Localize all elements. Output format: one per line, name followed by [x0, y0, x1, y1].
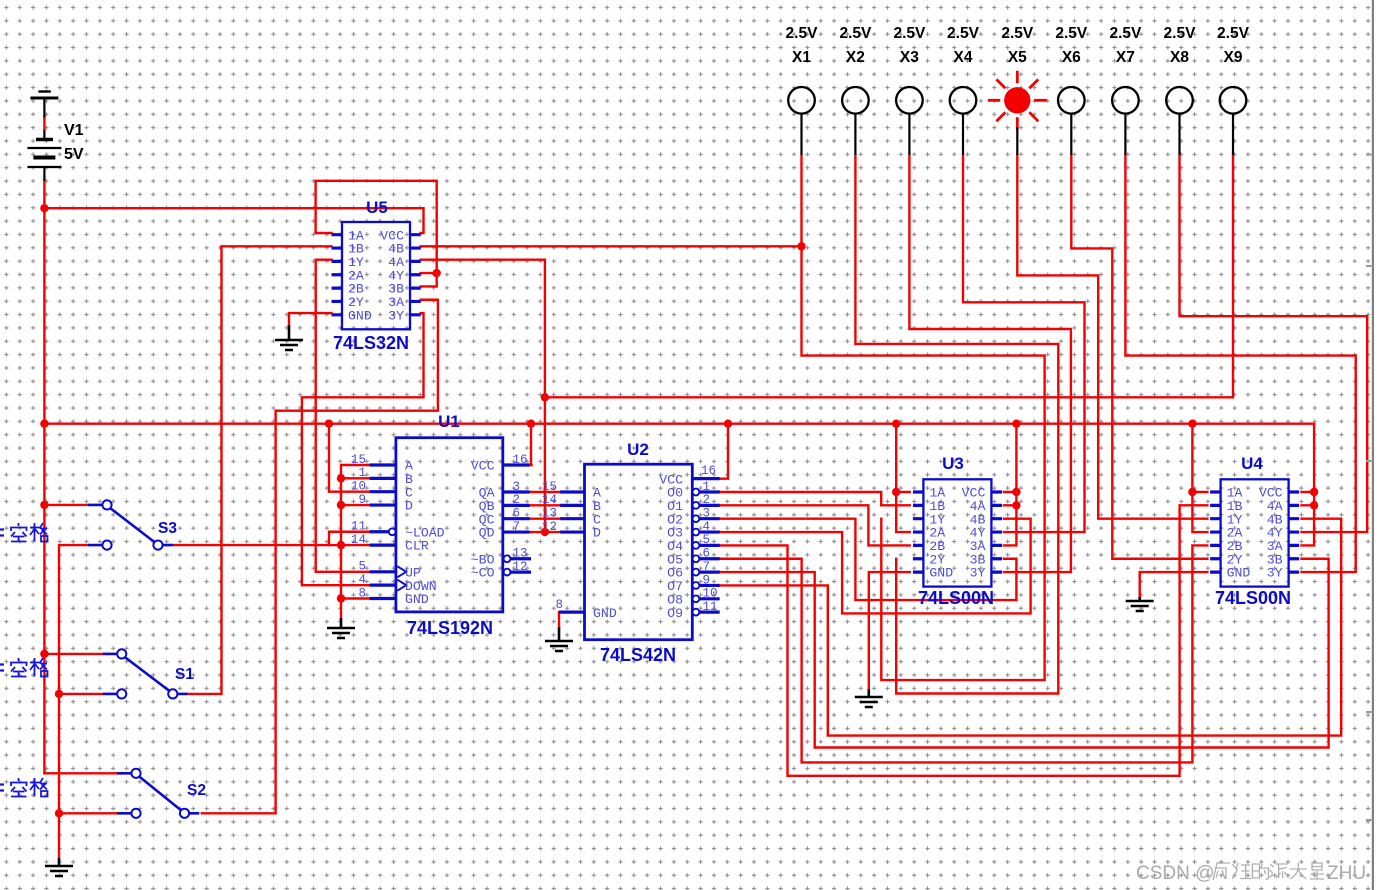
svg-text:VCC: VCC: [471, 459, 495, 474]
svg-text:QD: QD: [479, 526, 495, 541]
svg-text:11: 11: [703, 600, 718, 614]
wire U5 GND to ground: [289, 313, 332, 325]
wire lamp X8 net to U4 4Y: [1180, 155, 1368, 532]
battery V1 symbol: [27, 92, 61, 182]
svg-text:16: 16: [701, 464, 716, 478]
wire U2 GND drop: [558, 612, 560, 627]
U2 output bubble pin 10: [693, 595, 700, 602]
IC U2 74LS42N BCD decoder: [542, 440, 720, 665]
svg-text:CSDN @: CSDN @: [1136, 863, 1214, 884]
ground at U1: [327, 618, 355, 638]
U1 DOWN clock triangle pin 4: [397, 580, 406, 591]
svg-text:15: 15: [542, 480, 557, 494]
U1 ~CO bubble pin 12: [504, 569, 511, 576]
wire U1 QC to U2 C: [530, 518, 561, 520]
svg-text:5: 5: [358, 560, 366, 574]
svg-text:8: 8: [358, 586, 366, 600]
junction ground rail/S2 bottom: [55, 809, 63, 817]
U2 output bubble pin 7: [693, 569, 700, 576]
wire U1 grounded column (A,B,D,CLR,GND): [341, 465, 370, 620]
svg-text:74LS32N: 74LS32N: [333, 333, 409, 353]
svg-text:3Y: 3Y: [1267, 566, 1283, 581]
svg-text:4: 4: [703, 520, 711, 534]
border tick marks: [1366, 155, 1373, 821]
svg-text:5: 5: [703, 533, 711, 547]
wire lamp X7 net to U4 3Y: [1125, 155, 1355, 572]
svg-text:2: 2: [703, 493, 711, 507]
junction battery/bus: [40, 420, 48, 428]
indicator lamp X5: [988, 71, 1047, 130]
wire battery negative lead down to S2: [43, 181, 45, 773]
IC U1 74LS192N up/down counter: [351, 412, 531, 638]
svg-text:X3: X3: [900, 49, 919, 66]
U2 output bubble pin 5: [693, 542, 700, 549]
svg-text:D: D: [405, 499, 413, 514]
junction U3 VCC pin: [1012, 488, 1020, 496]
svg-text:3: 3: [513, 480, 521, 494]
wire bus riser to U3 1A/2A: [896, 424, 910, 532]
svg-text:9: 9: [703, 573, 711, 587]
wire S1 pole to U5 1B: [188, 246, 332, 694]
svg-text:S2: S2: [187, 782, 206, 799]
wire U5 1Y to U1 UP: [316, 260, 370, 572]
wire U2 O4 to U4 1B: [720, 505, 1208, 775]
wire U1 QA to U2 A: [530, 491, 561, 493]
svg-text:14: 14: [351, 533, 366, 547]
svg-text:S1: S1: [175, 666, 194, 683]
wire U2 O5 to U4 2B: [720, 545, 1208, 762]
svg-text:X6: X6: [1062, 49, 1081, 66]
svg-text:S3: S3: [158, 520, 177, 537]
U2 output bubble pin 3: [693, 515, 700, 522]
wire battery to S1 top contact: [44, 653, 102, 655]
wire U5 4Y loop to 1A and 3B: [316, 181, 437, 287]
wire 5V horizontal bus (y=424): [44, 423, 1314, 425]
junction U4 VCC pin: [1310, 488, 1318, 496]
ground at U2: [545, 627, 573, 651]
svg-text:1: 1: [703, 480, 711, 494]
wire U1 ~LOAD branch: [329, 532, 389, 545]
svg-text:U1: U1: [438, 412, 460, 431]
svg-text:10: 10: [351, 480, 366, 494]
svg-text:X9: X9: [1224, 49, 1243, 66]
wire U2 O7 to U4 4B: [720, 519, 1341, 736]
wire bus riser to U3 VCC/4A/3A: [1004, 424, 1017, 546]
svg-text:2.5V: 2.5V: [1055, 25, 1088, 42]
U1 ~BO bubble pin 13: [504, 555, 511, 562]
wire lamp X6 net to U4 2Y: [1071, 155, 1207, 559]
wire bus riser to U1 VCC pin16: [530, 424, 532, 465]
svg-text:X7: X7: [1116, 49, 1135, 66]
wire S3 pole to U1 CLR: [173, 544, 370, 546]
svg-text:15: 15: [351, 453, 366, 467]
svg-text:V1: V1: [64, 122, 84, 139]
ground at U5: [275, 325, 303, 350]
U4 74LS00N quad NAND gate pin stubs: [1210, 492, 1299, 572]
wire ground rail x=59 (S3b,S1b,S2b): [59, 545, 117, 858]
svg-text:X2: X2: [846, 49, 865, 66]
svg-text:U5: U5: [366, 198, 388, 217]
wire U1 QB to U2 B: [530, 504, 561, 506]
wire lamp X4 net to U3 4Y: [963, 155, 1085, 532]
svg-text:4: 4: [358, 573, 366, 587]
svg-text:2.5V: 2.5V: [1001, 25, 1034, 42]
junction bus/U2 VCC riser: [724, 420, 732, 428]
U3 74LS00N quad NAND gate pin stubs: [913, 492, 1002, 572]
junction U3 1A pin: [892, 488, 900, 496]
ground at U4: [1126, 597, 1154, 611]
U2 output bubble pin 1: [693, 489, 700, 496]
switch S3 (upper): [88, 500, 173, 549]
junction bus/U4 1A riser: [1188, 420, 1196, 428]
junction U3 4A pin: [1012, 501, 1020, 509]
svg-text:10: 10: [703, 587, 718, 601]
indicator lamp X2: [842, 87, 869, 114]
svg-text:U4: U4: [1241, 454, 1263, 473]
junction U1 QD / X9 net: [541, 528, 549, 536]
junction CLR row/ground column: [337, 541, 345, 549]
wire U2 O0 to U3 1B: [720, 492, 910, 505]
wire battery to S3 top contact: [44, 504, 88, 506]
U5 74LS32N quad OR gate pin stubs: [332, 235, 421, 315]
svg-text:U3: U3: [942, 454, 964, 473]
svg-text:13: 13: [513, 547, 528, 561]
svg-text:11: 11: [351, 520, 366, 534]
wire battery to S2 top contact: [44, 772, 117, 774]
svg-text:2.5V: 2.5V: [1109, 25, 1142, 42]
junction D row/ground column: [337, 501, 345, 509]
indicator lamp X4: [950, 87, 977, 114]
window right border: [1372, 0, 1374, 890]
U2 output bubble pin 4: [693, 529, 700, 536]
svg-text:3Y: 3Y: [388, 308, 404, 323]
U1 ~LOAD active-low bubble pin 11: [389, 528, 396, 535]
ground at U3: [855, 689, 883, 707]
wire S2 pole to U5 3A: [202, 300, 438, 814]
svg-text:2.5V: 2.5V: [1164, 25, 1197, 42]
switch S2 (lower): [117, 769, 199, 818]
U1 UP clock triangle pin 5: [397, 566, 406, 577]
junction bus/U3 VCC riser: [1012, 420, 1020, 428]
junction U4 1A pin: [1188, 488, 1196, 496]
indicator lamp X1: [788, 87, 815, 114]
wire lamp X1 net to U3 1Y: [802, 155, 1045, 680]
svg-text:2.5V: 2.5V: [1217, 25, 1250, 42]
junction battery/S3 top: [40, 501, 48, 509]
U2 output bubble pin 11: [693, 609, 700, 616]
svg-text:2.5V: 2.5V: [839, 25, 872, 42]
svg-text:CLR: CLR: [405, 539, 429, 554]
svg-text:2.5V: 2.5V: [947, 25, 980, 42]
junction U4 4A pin: [1310, 501, 1318, 509]
junction battery/S1 top: [40, 650, 48, 658]
svg-text:ZHU: ZHU: [1327, 863, 1366, 884]
svg-text:7: 7: [513, 520, 521, 534]
wire U5 4A / X9 / U1 QD net: [421, 155, 1233, 532]
svg-text:7: 7: [703, 560, 711, 574]
svg-text:2.5V: 2.5V: [893, 25, 926, 42]
junction battery/5V feed: [40, 204, 48, 212]
svg-text:5V: 5V: [64, 146, 84, 163]
wire U1 QD to U2 D: [530, 531, 561, 533]
junction bus/U3 1A riser: [892, 420, 900, 428]
svg-text:U2: U2: [627, 440, 649, 459]
svg-text:X4: X4: [954, 49, 973, 66]
IC U4 74LS00N quad NAND gate: [1210, 454, 1299, 608]
wire U5 4B to lamp X1 net: [421, 245, 802, 247]
U2 output bubble pin 6: [693, 555, 700, 562]
svg-text:14: 14: [542, 493, 557, 507]
label key = space for S3: [0, 523, 48, 542]
switch S1 (middle): [103, 649, 188, 698]
svg-text:~CO: ~CO: [471, 566, 495, 581]
svg-text:O9: O9: [667, 606, 683, 621]
wire U2 O6 to U4 3B: [720, 559, 1329, 748]
svg-text:2: 2: [513, 493, 521, 507]
svg-text:3: 3: [703, 507, 711, 521]
IC U5 74LS32N quad OR gate: [332, 198, 421, 353]
svg-text:74LS00N: 74LS00N: [918, 588, 994, 608]
wire U3 GND to ground: [869, 572, 910, 689]
wire U5 3Y to U1 DOWN: [302, 313, 424, 585]
junction U5 4Y output: [433, 269, 441, 277]
wire 5V feed to U5 VCC (y=208): [44, 208, 423, 233]
svg-text:X5: X5: [1008, 49, 1027, 66]
U2 output bubble pin 9: [693, 582, 700, 589]
watermark chinese handle (stroke approximation): [1213, 863, 1324, 880]
wire battery positive lead (red mid-segment): [43, 118, 45, 131]
indicator lamp X3: [896, 87, 923, 114]
label key = space for S1: [0, 658, 48, 677]
indicator lamp X7: [1112, 87, 1139, 114]
indicator lamp X8: [1166, 87, 1193, 114]
wire U4 GND to ground: [1140, 572, 1208, 597]
junction bus/U1 VCC riser: [527, 420, 535, 428]
junction B row/ground column: [337, 474, 345, 482]
svg-text:13: 13: [542, 507, 557, 521]
indicator lamp X9: [1220, 87, 1247, 114]
wire lamp X2 net to U3 2Y: [855, 155, 1058, 694]
junction X9 net / U5 4A: [541, 393, 549, 401]
IC U3 74LS00N quad NAND gate: [913, 454, 1002, 608]
svg-text:6: 6: [703, 547, 711, 561]
svg-text:12: 12: [542, 520, 557, 534]
svg-text:1: 1: [358, 466, 366, 480]
wire lamp X3 net to U3 3Y: [909, 155, 1071, 572]
svg-text:D: D: [593, 526, 601, 541]
svg-text:74LS192N: 74LS192N: [407, 618, 493, 638]
U2 output bubble pin 2: [693, 502, 700, 509]
junction U5 4B / lamp X1: [797, 242, 805, 250]
wire U2 O1 to U3 2B: [720, 505, 910, 545]
svg-text:GND: GND: [593, 606, 617, 621]
svg-text:74LS00N: 74LS00N: [1215, 588, 1291, 608]
wire lamp X5 net to U4 1Y: [1017, 155, 1207, 519]
ground at switch rail: [45, 858, 73, 876]
svg-text:GND: GND: [348, 308, 372, 323]
junction GND row/ground column: [337, 594, 345, 602]
svg-text:X1: X1: [792, 49, 811, 66]
svg-text:8: 8: [555, 598, 563, 612]
wire U2 O3 to U3 4B: [720, 519, 1031, 614]
svg-text:74LS42N: 74LS42N: [600, 645, 676, 665]
indicator lamp X6: [1058, 87, 1085, 114]
svg-text:2.5V: 2.5V: [786, 25, 819, 42]
wire bus riser to U4 1A/2A: [1192, 424, 1207, 532]
svg-text:16: 16: [513, 453, 528, 467]
svg-text:3Y: 3Y: [970, 566, 986, 581]
label key = space for S2: [0, 778, 48, 797]
junction bus/U1-C riser: [325, 420, 333, 428]
wire bus right end to U4 VCC/4A/3A: [1302, 424, 1315, 546]
wire bus to U1 pin C: [329, 424, 370, 492]
svg-text:12: 12: [513, 560, 528, 574]
svg-text:X8: X8: [1170, 49, 1189, 66]
wire U2 O2 to U3 3B: [720, 519, 1017, 600]
junction ground rail/S1 bottom: [55, 690, 63, 698]
wire bus riser to U2 VCC pin16: [720, 424, 728, 479]
svg-text:6: 6: [513, 507, 521, 521]
svg-text:GND: GND: [405, 592, 429, 607]
svg-text:9: 9: [358, 493, 366, 507]
svg-text:GND: GND: [1227, 566, 1251, 581]
svg-text:GND: GND: [929, 566, 953, 581]
